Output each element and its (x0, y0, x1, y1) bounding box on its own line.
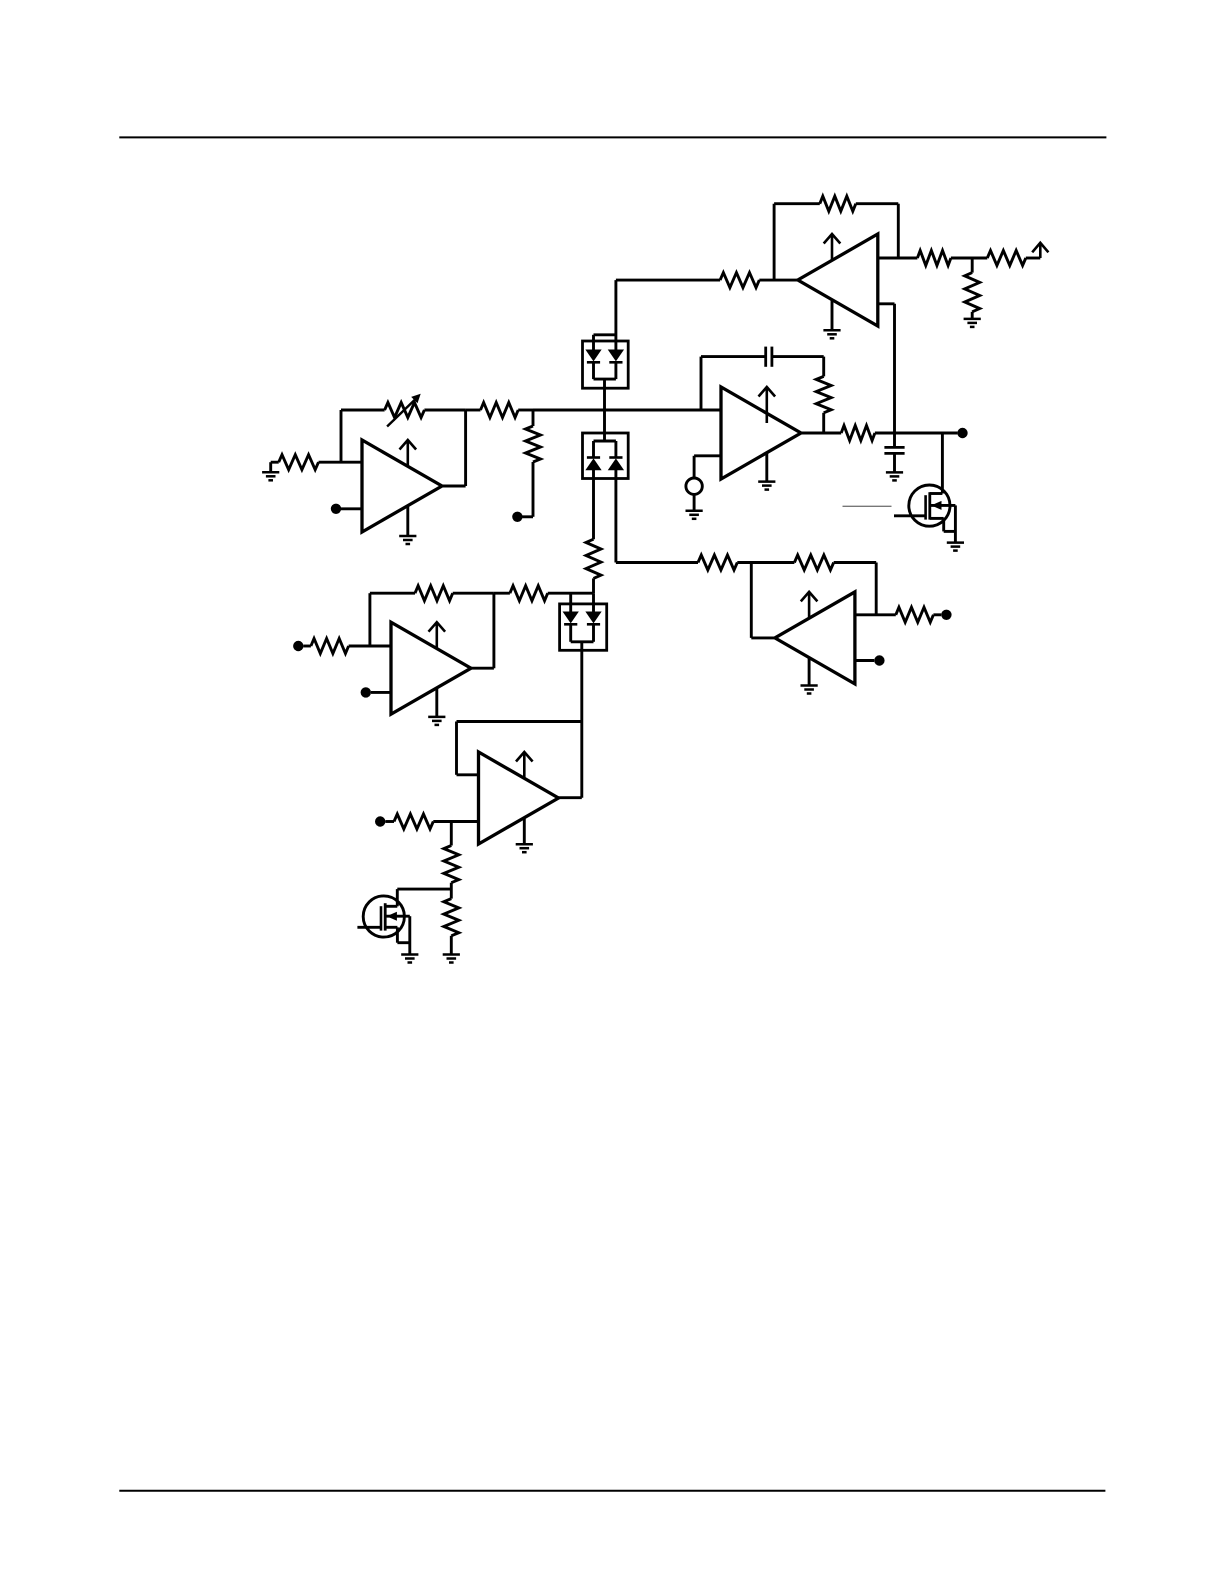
node (361, 687, 371, 697)
wire (614, 280, 617, 350)
wire (592, 362, 595, 379)
resistor R3 (481, 403, 519, 418)
wire (616, 561, 698, 564)
resistor R17 (965, 273, 980, 312)
diode D3b (586, 612, 600, 623)
wire (693, 456, 696, 478)
diode D1b (609, 350, 623, 361)
wire (518, 409, 533, 412)
node (375, 816, 385, 826)
wire (548, 592, 594, 595)
wire (396, 889, 399, 906)
wire (523, 818, 526, 844)
power arrow U5 (831, 234, 834, 260)
wire (471, 667, 494, 670)
wire (1026, 257, 1041, 260)
ground (823, 329, 840, 332)
power arrow U3 (765, 387, 768, 423)
diode D3a (564, 612, 578, 623)
wire (533, 409, 721, 412)
gate label line (843, 505, 892, 507)
resistor R22 (896, 607, 934, 622)
wire (368, 593, 371, 646)
node (512, 512, 522, 522)
wire (457, 773, 479, 776)
wire (592, 593, 595, 612)
wire (856, 202, 899, 205)
wire (371, 691, 391, 694)
wire (532, 462, 535, 517)
ground (947, 541, 964, 544)
wire (594, 440, 616, 443)
ground (443, 953, 460, 956)
resistor R1 (279, 455, 319, 470)
wire (603, 379, 606, 410)
wire (614, 470, 617, 563)
wire (875, 563, 878, 615)
resistor R15 (917, 251, 951, 266)
wire (466, 409, 481, 412)
op-amp U2 (391, 622, 471, 714)
diode pair D3 box (560, 604, 607, 650)
wire (616, 279, 720, 282)
resistor R6 (586, 539, 601, 578)
wire (450, 822, 453, 846)
node (331, 504, 341, 514)
wire (559, 796, 582, 799)
horizontal rule bottom (119, 1490, 1105, 1492)
wire (340, 410, 343, 462)
wire (855, 613, 896, 616)
resistor R13 (720, 273, 759, 288)
wire (442, 485, 466, 488)
wire (933, 613, 941, 616)
power arrow U4 (523, 752, 526, 778)
resistor R4 (816, 376, 831, 412)
wire (765, 453, 768, 482)
ground (758, 480, 775, 483)
wire (594, 378, 616, 381)
wire (801, 432, 841, 435)
ground (686, 510, 703, 513)
wire (592, 578, 595, 593)
wire (455, 722, 458, 775)
wire (951, 257, 987, 260)
resistor R9 (510, 586, 548, 601)
ground (886, 471, 903, 474)
wire (453, 592, 494, 595)
ground (964, 318, 981, 321)
wire (304, 645, 311, 648)
op-amp U3 (721, 387, 801, 479)
wire (700, 357, 703, 410)
wire (774, 202, 820, 205)
wire (532, 410, 535, 426)
power arrow U6 (808, 592, 811, 618)
variable resistor R2 (385, 403, 425, 418)
wire (772, 355, 824, 358)
wire (737, 561, 794, 564)
diode D2b (609, 456, 622, 459)
wire (569, 624, 572, 642)
diode pair D2 box (583, 433, 629, 479)
wire (893, 453, 896, 472)
wire (341, 507, 362, 510)
wire (450, 883, 453, 899)
wire (349, 645, 391, 648)
wire (808, 658, 811, 686)
wire (424, 409, 465, 412)
wire (450, 936, 453, 955)
wire (693, 494, 696, 510)
wire (750, 563, 753, 638)
ground (516, 843, 533, 846)
resistor R21 (794, 555, 833, 570)
wire (773, 204, 776, 280)
wire (494, 592, 510, 595)
wire (397, 888, 451, 891)
wire (433, 820, 478, 823)
wire (893, 433, 896, 447)
wire (464, 410, 467, 486)
wire (341, 409, 385, 412)
ground (428, 716, 445, 719)
wire (897, 204, 900, 258)
wire (822, 413, 825, 433)
op-amp U1 (362, 440, 442, 532)
wire (569, 593, 572, 612)
wire (701, 355, 766, 358)
wire (370, 592, 415, 595)
diode pair D1 box (583, 341, 629, 388)
op-amp U6 (775, 592, 855, 684)
wire (878, 302, 895, 305)
wire (435, 688, 438, 717)
wire (759, 279, 798, 282)
wire (592, 335, 595, 350)
wire (614, 441, 617, 458)
ground (262, 471, 279, 474)
node (941, 610, 951, 620)
resistor R7 (311, 639, 349, 654)
wire (592, 624, 595, 642)
ground (401, 953, 418, 956)
resistor R8 (415, 586, 453, 601)
wire (971, 312, 974, 319)
wire (822, 357, 825, 377)
input circle (686, 478, 702, 494)
op-amp U4 (479, 752, 559, 844)
wire (694, 454, 721, 457)
wire (406, 506, 409, 536)
wire (522, 515, 533, 518)
wire (580, 642, 583, 722)
resistor R10 (394, 814, 433, 829)
capacitor C1 (764, 347, 767, 367)
wire (594, 333, 616, 336)
transistor Q1 (909, 485, 950, 526)
ground (399, 535, 416, 538)
power arrow U2 (435, 622, 438, 648)
wire (457, 720, 582, 723)
resistor R5 (841, 426, 875, 441)
wire (834, 561, 877, 564)
wire (875, 432, 958, 435)
wire (385, 820, 394, 823)
wire (492, 593, 495, 668)
resistor R11 (444, 846, 459, 883)
wire (603, 410, 606, 441)
power arrow U1 (406, 440, 409, 466)
wire (878, 257, 918, 260)
ground (801, 684, 818, 687)
wire (580, 722, 583, 798)
wire (592, 470, 595, 539)
capacitor C2 (884, 446, 904, 449)
node (971, 258, 974, 273)
wire (614, 362, 617, 379)
wire (855, 659, 874, 662)
transistor Q2 (363, 896, 404, 937)
diode D1a (586, 350, 600, 361)
diode D2a (587, 456, 600, 459)
arrow terminal (1039, 243, 1042, 258)
node (293, 641, 303, 651)
wire (269, 462, 272, 472)
node (957, 428, 967, 438)
wire (319, 461, 363, 464)
wire (831, 300, 834, 330)
horizontal rule top (119, 136, 1106, 138)
resistor R16 (987, 251, 1026, 266)
wire (941, 433, 944, 494)
wire (271, 461, 279, 464)
wire (571, 640, 594, 643)
resistor R20 (698, 555, 737, 570)
wire (893, 304, 896, 433)
node (874, 655, 884, 665)
wire (592, 441, 595, 458)
resistor R19 (526, 426, 541, 462)
resistor R12 (444, 899, 459, 936)
op-amp U5 (798, 234, 878, 326)
wire (751, 636, 775, 639)
resistor R14 (820, 196, 856, 211)
